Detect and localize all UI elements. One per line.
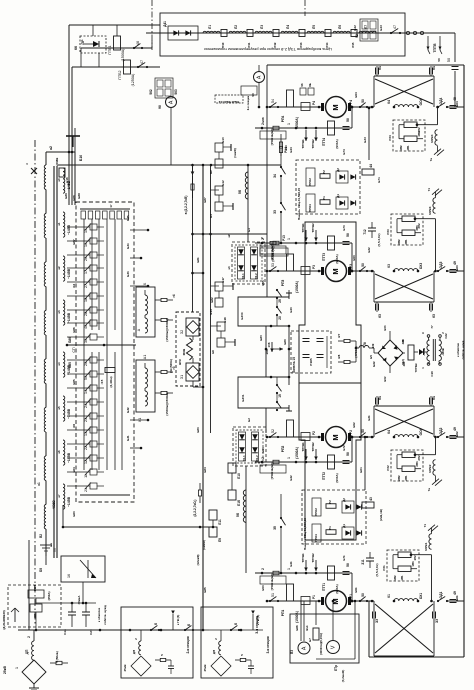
- wire cross bottom rail g2: [374, 271, 434, 302]
- svg-text:47: 47: [140, 60, 144, 64]
- svg-text:78: 78: [363, 342, 367, 346]
- svg-text:к4: к4: [227, 266, 231, 269]
- ammeter A group1: [241, 65, 265, 110]
- MUV panel box m1: [387, 550, 419, 581]
- svg-text:(150Ом)(150Ом): (150Ом)(150Ом): [165, 392, 169, 415]
- cross X g4: [375, 604, 433, 653]
- svg-text:Р45: Р45: [351, 42, 355, 47]
- svg-text:34: 34: [273, 174, 277, 178]
- main bottom wire: [18, 629, 204, 632]
- svg-text:(250А): (250А): [47, 592, 51, 601]
- svg-text:РП3: РП3: [281, 280, 285, 287]
- inductor 56 bottom: [236, 466, 246, 573]
- panel ZV diode Д1 bot: [342, 524, 354, 539]
- inductor MUV2: [434, 436, 437, 455]
- section GV wire s3: [251, 611, 260, 631]
- svg-text:21: 21: [84, 488, 88, 492]
- svg-text:M: M: [331, 268, 340, 274]
- measuring box: [290, 614, 359, 663]
- junction g1: [351, 106, 374, 109]
- svg-text:ПР: ПР: [81, 39, 85, 45]
- svg-text:1: 1: [287, 568, 291, 570]
- svg-text:56Б20 56Б19 2-я: 56Б20 56Б19 2-я: [218, 100, 239, 104]
- resistor 5 (56kOhm): [50, 651, 68, 664]
- svg-text:66: 66: [74, 46, 78, 50]
- svg-text:Панель ЗВц-01,598,15: Панель ЗВц-01,598,15: [297, 188, 301, 220]
- section wire top s3: [209, 629, 263, 632]
- wire loop B403: [238, 297, 290, 327]
- svg-text:5 (56кБ): 5 (56кБ): [55, 651, 59, 663]
- relay RP3 (1500A): [281, 254, 299, 293]
- transducer arrows f4: [301, 127, 318, 149]
- resistor R11 f1: [261, 568, 291, 575]
- inductor top Л6: [333, 25, 350, 33]
- svg-text:в (2,2-2,7кВ): в (2,2-2,7кВ): [184, 196, 188, 215]
- svg-text:1П1: 1П1: [400, 575, 404, 581]
- wire motor line g2: [266, 270, 374, 273]
- svg-text:ПТТ2: ПТТ2: [322, 472, 326, 480]
- wire left input vertical: [28, 540, 30, 630]
- switch 46: [81, 40, 152, 67]
- svg-text:РП1: РП1: [281, 610, 285, 617]
- wire B33 drop: [363, 107, 370, 160]
- svg-text:ТРПШ: ТРПШ: [414, 363, 418, 372]
- inductor MUV4 coil: [430, 130, 438, 146]
- contact 49 g2: [447, 261, 464, 272]
- label TT: [40, 545, 57, 552]
- svg-text:Б44: Б44: [289, 147, 293, 153]
- svg-text:РР2: РР2: [349, 430, 353, 436]
- svg-text:Л4: Л4: [286, 25, 290, 29]
- svg-text:Р2: Р2: [328, 500, 332, 504]
- inductor 56 top: [211, 165, 248, 242]
- resistor r3a (150 Ohm): [155, 366, 176, 373]
- svg-text:11: 11: [84, 474, 88, 478]
- svg-text:Р24: Р24: [388, 135, 392, 141]
- resistor R13 mid: [260, 235, 286, 245]
- svg-text:53: 53: [271, 263, 275, 267]
- resistor 44 (2kOhm) top: [362, 164, 381, 183]
- svg-text:Б43: Б43: [379, 25, 383, 31]
- svg-text:Б301: Б301: [241, 394, 245, 401]
- switch OD4: [437, 97, 448, 108]
- svg-text:В3: В3: [290, 650, 294, 654]
- fuse PTT2 (900A): [322, 455, 339, 483]
- VUV dashed box top: [232, 242, 265, 284]
- transformer core: [54, 166, 57, 558]
- svg-text:Б31: Б31: [126, 435, 130, 441]
- svg-text:Б84: Б84: [203, 467, 207, 473]
- svg-text:МОВ: МОВ: [182, 349, 186, 356]
- svg-text:Б86: Б86: [68, 337, 72, 343]
- panel ZV diode2 bot1: [356, 530, 361, 535]
- svg-text:К3: К3: [387, 264, 391, 268]
- block D43-D46: [353, 19, 383, 41]
- svg-text:Б73: Б73: [342, 225, 346, 231]
- svg-text:Б31: Б31: [367, 415, 371, 421]
- resistor R13 f3: [261, 238, 291, 245]
- svg-text:50: 50: [346, 452, 350, 456]
- fuse PTB1 (1500A): [108, 25, 125, 61]
- svg-text:Л3: Л3: [260, 25, 264, 29]
- svg-text:[РОВ14(6)]: [РОВ14(6)]: [271, 247, 275, 262]
- section boundary dash-dot: [151, 0, 153, 50]
- label ETr: [334, 665, 345, 682]
- svg-text:4П2: 4П2: [399, 145, 403, 151]
- svg-text:Д41: Д41: [163, 21, 167, 27]
- svg-text:106: 106: [265, 349, 269, 355]
- wire feeder f2: [255, 461, 352, 464]
- MUV panel box m2: [391, 450, 423, 481]
- label B89 B88: [64, 193, 81, 199]
- svg-text:Б9: Б9: [39, 568, 43, 572]
- resistor 43 (2kOhm) bottom: [362, 497, 383, 521]
- wire labels sprinkle 5: [413, 58, 459, 601]
- svg-text:[РОВ1Б(Б)]: [РОВ1Б(Б)]: [270, 129, 274, 145]
- svg-text:439: 439: [371, 343, 375, 348]
- label 25kV: [3, 665, 7, 673]
- svg-text:ТПТВ2: ТПТВ2: [311, 139, 315, 149]
- svg-text:(Д.ИН290В30): (Д.ИН290В30): [2, 610, 6, 629]
- wire labels sprinkle 2: [352, 92, 371, 593]
- resistor P2 m3: [397, 225, 419, 245]
- ammeter V3: [290, 642, 310, 654]
- svg-text:РЭК5: РЭК5: [309, 358, 313, 366]
- svg-text:3-я секция: 3-я секция: [266, 636, 270, 653]
- top band chain wire: [146, 32, 455, 34]
- relay RP1 (1500A): [281, 584, 299, 623]
- svg-text:3П1: 3П1: [404, 239, 408, 245]
- svg-text:Б1: Б1: [247, 228, 251, 232]
- svg-text:С10: С10: [430, 371, 434, 377]
- section cap s2: [168, 660, 174, 674]
- svg-text:Р41: Р41: [247, 42, 251, 47]
- secondary label 1: [57, 222, 76, 245]
- wire y234 cross: [193, 233, 268, 235]
- svg-text:Р43: Р43: [299, 42, 303, 47]
- svg-text:ПТТ3: ПТТ3: [322, 253, 326, 261]
- svg-text:В2: В2: [39, 534, 43, 538]
- contact 6x L g2: [376, 302, 383, 318]
- wire top-left inner corner: [72, 67, 160, 205]
- svg-text:ТПТВ2: ТПТВ2: [311, 442, 315, 452]
- svg-text:Б32: Б32: [126, 407, 130, 413]
- contact 6x R g1: [430, 66, 437, 76]
- svg-text:(П2): (П2): [401, 359, 405, 365]
- contact 49 g4: [447, 591, 464, 602]
- svg-text:Б63: Б63: [72, 511, 76, 517]
- EKG bottom bus: [80, 494, 130, 496]
- label RR1: [349, 594, 353, 600]
- svg-text:28: 28: [84, 312, 88, 316]
- field winding OB g2: [387, 263, 423, 273]
- svg-text:17: 17: [109, 204, 113, 208]
- svg-text:А1: А1: [143, 355, 147, 359]
- svg-text:а5: а5: [57, 406, 61, 410]
- svg-text:ОО4: ОО4: [419, 98, 423, 105]
- contact 6x R g4: [433, 612, 440, 624]
- ammeter top left: [158, 97, 177, 166]
- svg-text:25кВ: 25кВ: [3, 665, 7, 673]
- svg-text:64: 64: [432, 396, 436, 400]
- svg-text:2-я секция: 2-я секция: [186, 636, 190, 653]
- svg-text:ПРО2: ПРО2: [308, 178, 312, 186]
- svg-text:(4п=500А): (4п=500А): [169, 359, 173, 373]
- resistor R22 m2: [386, 452, 415, 471]
- svg-text:~230В: ~230В: [422, 348, 426, 356]
- svg-text:Б85: Б85: [68, 362, 72, 368]
- wires MUV m3: [397, 217, 436, 232]
- svg-text:24: 24: [84, 404, 88, 408]
- wire motor line g4: [266, 600, 374, 603]
- svg-text:(0,2мкФ): (0,2мкФ): [341, 670, 345, 682]
- svg-text:З1: З1: [180, 375, 184, 379]
- wire labels sprinkle 1: [196, 197, 214, 593]
- svg-text:ДП: ДП: [132, 650, 136, 654]
- wire feeder f3: [255, 242, 352, 245]
- panel ZV dashed box bot: [302, 490, 366, 544]
- inductor top Л1: [203, 25, 220, 33]
- svg-text:Б88: Б88: [77, 193, 81, 199]
- inductor MUV4: [436, 106, 439, 125]
- wire left dash-dot boundary: [34, 140, 36, 625]
- panel ZV resistor Р1 top: [320, 196, 330, 204]
- svg-text:92: 92: [355, 34, 359, 38]
- svg-text:Вч1: Вч1: [305, 625, 309, 631]
- wires MUV m2: [397, 453, 436, 468]
- svg-text:2П1: 2П1: [404, 475, 408, 481]
- switch 47 top right: [390, 25, 401, 34]
- svg-text:Р1: Р1: [322, 196, 326, 200]
- svg-text:Е14: Е14: [209, 309, 213, 315]
- svg-text:ОД3: ОД3: [439, 261, 443, 268]
- wire y273 stub: [193, 272, 204, 274]
- snubber E17 E14: [209, 277, 233, 315]
- secondary label 4: [57, 362, 76, 385]
- svg-text:2П2: 2П2: [417, 455, 421, 461]
- wire top-left outer corner: [69, 25, 160, 205]
- secondary label 3: [57, 310, 76, 333]
- resistor top r5: [351, 30, 357, 48]
- VUV diodes top: [238, 247, 259, 279]
- svg-text:3П2: 3П2: [397, 239, 401, 245]
- svg-text:77: 77: [430, 325, 434, 329]
- contact 49 g3: [447, 427, 464, 438]
- MUV panel box m4: [393, 120, 425, 151]
- svg-text:50: 50: [346, 563, 350, 567]
- svg-text:ПТТ4: ПТТ4: [322, 138, 326, 146]
- svg-text:Р1: Р1: [312, 595, 316, 599]
- box RMT (250A): [28, 585, 51, 601]
- svg-text:ВУК: ВУК: [178, 359, 182, 365]
- svg-text:40: 40: [84, 325, 88, 329]
- svg-text:17: 17: [84, 270, 88, 274]
- svg-text:РП2: РП2: [281, 446, 285, 453]
- arrester 7a m2: [427, 476, 442, 492]
- transformer TRPSh: [414, 325, 448, 377]
- svg-text:Б82: Б82: [210, 297, 214, 303]
- svg-text:50: 50: [84, 376, 88, 380]
- svg-text:Р2: Р2: [322, 170, 326, 174]
- svg-text:к2: к2: [227, 234, 231, 237]
- svg-text:(900А): (900А): [335, 473, 339, 482]
- svg-text:Л6: Л6: [338, 25, 342, 29]
- contact 6x L g1: [376, 66, 383, 76]
- svg-text:Цепь возбуждения ТЭД 2-й секци: Цепь возбуждения ТЭД 2-й секции при реку…: [204, 47, 332, 52]
- capacitor Z11 (0.5-0.6s): [361, 552, 379, 577]
- box ROV f1: [260, 574, 286, 590]
- svg-text:Б54: Б54: [261, 447, 265, 453]
- wire feeder drop f4: [351, 106, 354, 128]
- contact 50 right top: [447, 58, 459, 107]
- resistor R12 f2: [261, 457, 291, 464]
- svg-text:ДП: ДП: [25, 649, 29, 654]
- svg-text:50: 50: [346, 118, 350, 122]
- svg-text:Б91: Б91: [354, 587, 358, 593]
- svg-text:Л2: Л2: [234, 25, 238, 29]
- svg-text:(900А): (900А): [335, 584, 339, 593]
- svg-text:62-1: 62-1: [241, 273, 245, 279]
- panel ZV diode2 top0: [350, 174, 355, 179]
- svg-text:46: 46: [136, 41, 140, 45]
- svg-text:Л5: Л5: [312, 25, 316, 29]
- svg-text:Б43: Б43: [289, 307, 293, 313]
- machine box lower stepped: [299, 383, 361, 540]
- svg-text:X: X: [142, 282, 147, 285]
- transformer secondary windings: [63, 168, 65, 509]
- panel 15 wires: [299, 336, 327, 368]
- svg-text:Е10: Е10: [237, 473, 241, 479]
- EKG mid gap links: [84, 330, 122, 352]
- contact 50f f2: [343, 452, 351, 463]
- section resistor s3: [235, 654, 251, 662]
- field winding OB g3: [387, 428, 423, 438]
- svg-text:Б33: Б33: [363, 137, 367, 143]
- svg-text:Б02: Б02: [455, 431, 459, 437]
- svg-text:а0: а0: [57, 178, 61, 182]
- capacitor 712 (0.5-0.6s): [363, 222, 381, 247]
- motor M4: [321, 97, 351, 118]
- svg-text:1П3: 1П3: [411, 561, 415, 567]
- svg-text:4П1: 4П1: [406, 145, 410, 151]
- svg-text:88: 88: [401, 339, 405, 343]
- svg-text:Б67: Б67: [72, 239, 76, 245]
- svg-text:б: б: [234, 623, 238, 625]
- svg-text:Б62: Б62: [372, 361, 376, 367]
- svg-text:64: 64: [432, 66, 436, 70]
- secondary label 7: [57, 494, 76, 517]
- snubber E11 E9 lower: [202, 510, 222, 550]
- svg-text:Б52: Б52: [383, 376, 387, 381]
- svg-text:Р4: Р4: [312, 101, 316, 105]
- section diamond s2: [131, 656, 151, 676]
- VUK diode block 32: [180, 318, 199, 336]
- svg-text:Х1: Х1: [138, 418, 142, 422]
- svg-text:1П2: 1П2: [393, 575, 397, 581]
- svg-text:47: 47: [393, 25, 397, 29]
- svg-text:M: M: [331, 104, 340, 110]
- svg-text:1: 1: [287, 457, 291, 459]
- inductor top Л2: [229, 25, 246, 33]
- svg-text:A: A: [257, 75, 263, 79]
- svg-text:(1500А): (1500А): [295, 281, 299, 293]
- svg-text:[РОВ1Б(Б)]: [РОВ1Б(Б)]: [270, 574, 274, 590]
- svg-text:Е9: Е9: [218, 538, 222, 542]
- svg-text:90: 90: [251, 93, 255, 97]
- svg-text:б: б: [154, 623, 158, 625]
- svg-text:Е16: Е16: [65, 177, 69, 183]
- TPTV transducers: [425, 33, 443, 54]
- relay RP4 (1500A): [281, 90, 299, 129]
- svg-text:Е10: Е10: [221, 137, 225, 143]
- svg-text:ТПТВ1: ТПТВ1: [301, 223, 305, 233]
- svg-text:r27: r27: [337, 333, 341, 338]
- label own needs bottom: [97, 605, 107, 625]
- bus wire x266 low: [265, 408, 267, 433]
- arrester RVE diamond: [15, 660, 46, 684]
- svg-text:Б66: Б66: [72, 327, 76, 333]
- svg-text:50: 50: [361, 99, 365, 103]
- cross X g1: [375, 79, 433, 104]
- MUV panel box m3: [391, 214, 423, 245]
- resistor r4b (150 Ohm): [155, 318, 173, 341]
- svg-text:49: 49: [453, 261, 457, 265]
- svg-text:х: х: [25, 163, 29, 165]
- svg-text:22: 22: [84, 446, 88, 450]
- svg-text:(12мкФ): (12мкФ): [196, 555, 200, 566]
- svg-text:A: A: [169, 100, 175, 104]
- ground bottom left: [29, 684, 39, 690]
- RMT dashed box: [2, 585, 61, 630]
- svg-text:Б80: Б80: [259, 335, 263, 341]
- svg-text:(2,2-2,7кО,): (2,2-2,7кО,): [193, 499, 197, 516]
- contact 6x L g3: [376, 396, 383, 406]
- svg-text:35: 35: [273, 526, 277, 530]
- EKG internal vertical wires upper: [84, 219, 122, 330]
- resistor R14 f4: [261, 123, 291, 130]
- svg-text:ДП: ДП: [212, 650, 216, 654]
- svg-text:З3: З3: [435, 619, 439, 623]
- resistor R43 g1: [279, 134, 288, 156]
- svg-text:Д2: Д2: [336, 168, 340, 172]
- box NC: [30, 604, 42, 618]
- switch 5x g3: [269, 429, 279, 438]
- VUV dashed box bot: [233, 427, 266, 466]
- section GV wire s2: [171, 611, 180, 631]
- winding bottom label: [37, 482, 56, 510]
- EKG contact column upper: [67, 224, 104, 344]
- svg-text:13: 13: [84, 432, 88, 436]
- label section 3-4: [255, 616, 259, 634]
- svg-text:Р23: Р23: [386, 229, 390, 235]
- VUK diode block 31: [180, 363, 199, 381]
- wire cross top rail g1: [374, 76, 434, 107]
- svg-text:ОХ3: ОХ3: [419, 263, 423, 269]
- wire motor line g3: [266, 436, 374, 439]
- svg-text:27: 27: [84, 284, 88, 288]
- snubber E12 E4 chain upper: [209, 180, 233, 218]
- motor M1: [321, 591, 351, 612]
- svg-text:1П2: 1П2: [413, 555, 417, 561]
- switch 19: [276, 384, 282, 398]
- switch 35: [273, 494, 286, 574]
- wires P15 to bridge: [355, 341, 359, 362]
- svg-text:З3: З3: [375, 619, 379, 623]
- resistor (2.2-2.7kOhm) lower: [193, 483, 202, 517]
- resistor R14 mid: [279, 141, 288, 166]
- svg-text:(1500А): (1500А): [121, 49, 125, 62]
- svg-text:6Б: 6Б: [308, 83, 312, 87]
